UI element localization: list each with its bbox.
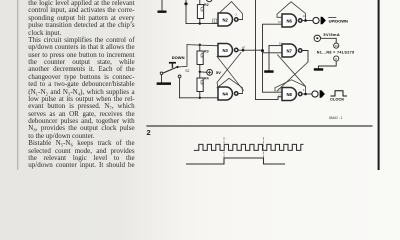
output terminal UP/DOWN [313, 17, 348, 24]
svg-text:5V: 5V [216, 70, 221, 75]
clock pulse glyph [331, 91, 347, 96]
page edge line [378, 0, 380, 170]
resistor R2 [197, 0, 208, 25]
wire N7 lower input from bus [263, 52, 283, 54]
timing diagram clock trace [194, 144, 303, 150]
5V supply terminal [200, 69, 221, 75]
svg-text:1: 1 [214, 19, 216, 23]
wire R3 net (upper throw of S2 to N3 / bus) [178, 44, 218, 67]
svg-text:N8: N8 [287, 92, 293, 97]
ground (N7 input) [264, 46, 273, 73]
nand gate N8 [282, 88, 302, 101]
supply terminal 5V/5mA [314, 32, 340, 43]
svg-text:R3: R3 [204, 49, 209, 53]
svg-text:N3: N3 [223, 48, 229, 53]
resistor R4 [197, 72, 209, 99]
bus wire (N3 output to N6 and N8) [263, 24, 283, 92]
svg-text:3: 3 [235, 13, 237, 17]
svg-text:S2: S2 [185, 69, 189, 73]
svg-text:47k: 47k [200, 6, 204, 12]
dashed marker lines [224, 138, 264, 160]
svg-text:N2: N2 [223, 17, 229, 22]
nand gate N3 [218, 44, 238, 57]
figure rule [147, 125, 372, 127]
pushbutton S2 [160, 62, 189, 98]
pin 1 label N2 [213, 19, 217, 23]
ground (IC) [314, 68, 323, 71]
svg-text:13: 13 [303, 14, 307, 18]
wire N4 output [238, 93, 243, 95]
svg-text:47k: 47k [200, 52, 204, 58]
wire [186, 4, 218, 24]
svg-text:N7: N7 [287, 48, 293, 53]
ground (top left) [158, 0, 167, 13]
body text column [28, 0, 134, 170]
ground (below S2) [157, 75, 171, 85]
node S1 (wire from UP switch above crop) [184, 0, 187, 5]
wire N6 output [302, 19, 313, 22]
resistor R3 [197, 44, 209, 73]
svg-text:12: 12 [279, 42, 283, 46]
nand gate N2 [218, 13, 238, 26]
svg-text:5V/5mA: 5V/5mA [323, 32, 340, 37]
nand gate N4 [218, 87, 238, 100]
wire [319, 61, 337, 68]
pin stub N3 output [243, 45, 246, 50]
feedback roof over N4 [217, 78, 243, 93]
column rule (left page edge) [17, 0, 19, 170]
feedback roof over N2 [218, 2, 243, 20]
svg-text:UP/DOWN: UP/DOWN [329, 18, 348, 23]
svg-text:86462 - 1: 86462 - 1 [329, 116, 343, 120]
nand gate N6 [282, 14, 302, 27]
wire N7 top input [269, 45, 282, 47]
wire N3 output to bus [238, 49, 264, 52]
svg-text:R4: R4 [204, 77, 209, 81]
svg-text:9: 9 [303, 88, 305, 92]
svg-text:10: 10 [278, 20, 282, 24]
svg-text:N6: N6 [287, 18, 293, 23]
wire R4 net to N4 [180, 97, 218, 99]
svg-text:CLOCK: CLOCK [330, 96, 344, 101]
bus wire (from UP debouncer above crop) [256, 0, 283, 100]
bistable cross wires N3-N4 [217, 53, 244, 91]
IC ground pin 8 [334, 56, 339, 61]
svg-text:16: 16 [335, 44, 339, 48]
feedback roof over N6 [277, 2, 306, 21]
svg-text:2: 2 [147, 128, 151, 137]
supply circle (cut off at top) [206, 0, 212, 2]
svg-text:47k: 47k [200, 79, 204, 85]
svg-text:N1...N8 = 74LS279: N1...N8 = 74LS279 [317, 50, 355, 54]
svg-text:N4: N4 [223, 91, 229, 96]
svg-text:R2: R2 [204, 3, 209, 7]
wire N2 output [238, 19, 243, 21]
wire N7 output [302, 51, 308, 63]
output terminal CLOCK [312, 90, 325, 97]
feedback roof over N8 [275, 80, 306, 94]
bistable cross wires N7-N8 [277, 55, 308, 91]
IC supply pin 16 [334, 43, 339, 48]
svg-text:7: 7 [244, 45, 246, 49]
svg-text:DOWN: DOWN [172, 55, 185, 60]
nand gate N7 [282, 44, 302, 57]
up/down gate trace [187, 158, 285, 164]
wire N8 output [302, 93, 312, 96]
